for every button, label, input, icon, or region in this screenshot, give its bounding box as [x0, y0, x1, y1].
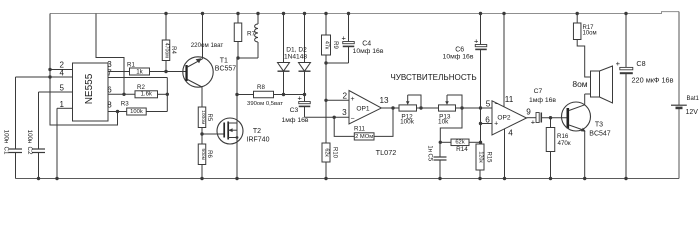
svg-text:OP1: OP1	[356, 106, 370, 113]
svg-text:R3: R3	[121, 101, 129, 108]
svg-text:6: 6	[107, 86, 112, 95]
svg-text:8: 8	[107, 100, 112, 109]
svg-text:OP2: OP2	[497, 114, 511, 121]
svg-text:1н: 1н	[427, 145, 433, 152]
svg-text:C7: C7	[534, 88, 543, 95]
svg-text:R8: R8	[257, 84, 265, 91]
svg-text:3: 3	[342, 108, 347, 117]
svg-text:+: +	[616, 59, 621, 68]
svg-text:Bat1: Bat1	[687, 96, 700, 102]
svg-text:C2: C2	[26, 147, 33, 155]
svg-text:1.6k: 1.6k	[141, 92, 153, 98]
svg-text:1мф 16в: 1мф 16в	[529, 97, 556, 104]
svg-text:62k: 62k	[455, 140, 464, 146]
svg-text:C3: C3	[290, 107, 299, 114]
svg-text:IRF740: IRF740	[247, 137, 270, 144]
svg-text:12V: 12V	[686, 109, 699, 116]
svg-text:D1, D2: D1, D2	[286, 47, 307, 54]
svg-text:11: 11	[505, 95, 514, 104]
svg-text:10мф 16в: 10мф 16в	[353, 48, 384, 55]
svg-text:470ом: 470ом	[163, 43, 169, 59]
svg-text:2 МОм: 2 МОм	[355, 134, 373, 140]
svg-text:100k: 100k	[400, 118, 415, 125]
svg-text:1: 1	[59, 100, 64, 109]
svg-text:NE555: NE555	[84, 73, 95, 104]
svg-text:ЧУВСТВИТЕЛЬНОСТЬ: ЧУВСТВИТЕЛЬНОСТЬ	[390, 73, 476, 82]
svg-text:TL072: TL072	[376, 148, 397, 157]
svg-text:C8: C8	[636, 59, 645, 68]
svg-text:6: 6	[485, 115, 490, 124]
svg-text:+: +	[298, 94, 303, 103]
svg-text:4: 4	[59, 68, 64, 77]
svg-text:13: 13	[379, 96, 389, 105]
svg-text:5: 5	[59, 83, 64, 92]
svg-text:BC557: BC557	[215, 66, 237, 73]
svg-text:390ом 0,5ват: 390ом 0,5ват	[247, 101, 283, 107]
svg-text:120к: 120к	[477, 151, 483, 163]
svg-text:5: 5	[486, 100, 491, 109]
svg-text:T2: T2	[253, 128, 261, 135]
svg-text:+: +	[342, 34, 347, 43]
svg-text:10ом: 10ом	[583, 31, 597, 37]
svg-text:220ом 1ват: 220ом 1ват	[191, 42, 224, 49]
svg-text:+: +	[494, 120, 498, 127]
svg-text:R1: R1	[127, 62, 135, 69]
svg-text:−: −	[350, 116, 354, 123]
svg-text:R9: R9	[332, 41, 338, 49]
svg-text:220 мкФ 16в: 220 мкФ 16в	[632, 76, 674, 85]
svg-text:62к: 62к	[323, 148, 329, 157]
svg-text:50ом: 50ом	[200, 148, 206, 160]
svg-text:+: +	[474, 37, 479, 46]
svg-text:10мф 16в: 10мф 16в	[443, 54, 474, 61]
svg-text:C5: C5	[427, 153, 433, 161]
svg-text:10k: 10k	[438, 118, 449, 125]
svg-text:470к: 470к	[558, 140, 571, 147]
svg-text:+: +	[350, 96, 354, 103]
svg-text:100ом: 100ом	[200, 110, 206, 125]
svg-text:100н: 100н	[3, 130, 10, 144]
svg-text:R6: R6	[206, 150, 212, 158]
svg-text:4: 4	[508, 129, 513, 138]
svg-text:1мф 16в: 1мф 16в	[281, 117, 308, 124]
svg-text:7: 7	[107, 68, 112, 77]
svg-text:9: 9	[526, 108, 531, 117]
svg-text:47к: 47к	[323, 41, 329, 50]
svg-text:R10: R10	[331, 147, 337, 159]
svg-text:R11: R11	[354, 126, 365, 133]
svg-text:100k: 100k	[130, 109, 143, 115]
svg-text:1k: 1k	[136, 68, 143, 75]
svg-text:8ом: 8ом	[572, 79, 587, 89]
svg-text:C1: C1	[3, 147, 10, 155]
svg-text:100н: 100н	[26, 130, 33, 144]
svg-text:2: 2	[343, 91, 348, 100]
svg-text:R16: R16	[557, 133, 569, 140]
svg-text:C6: C6	[455, 46, 464, 53]
svg-text:−: −	[494, 101, 498, 108]
svg-text:+: +	[531, 117, 536, 126]
svg-text:R2: R2	[137, 84, 145, 91]
svg-text:C4: C4	[362, 40, 371, 47]
svg-text:R14: R14	[456, 146, 468, 153]
svg-text:T1: T1	[220, 58, 228, 65]
svg-text:R4: R4	[170, 46, 176, 54]
svg-text:R15: R15	[486, 151, 492, 163]
svg-text:R5: R5	[206, 113, 212, 121]
svg-text:1N4148: 1N4148	[284, 54, 307, 61]
svg-text:BC547: BC547	[589, 131, 611, 138]
svg-text:T3: T3	[595, 122, 603, 129]
